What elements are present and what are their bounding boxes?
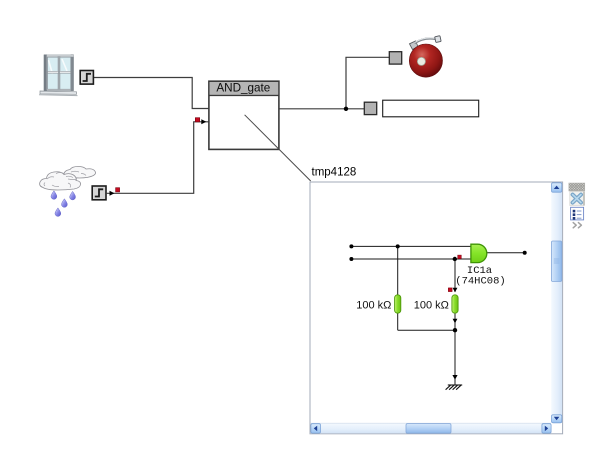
svg-text:100 kΩ: 100 kΩ [414, 299, 449, 311]
svg-text:(74HC08): (74HC08) [455, 276, 505, 288]
svg-text:100 kΩ: 100 kΩ [356, 299, 391, 311]
svg-text:tmp4128: tmp4128 [312, 167, 357, 179]
svg-text:AND_gate: AND_gate [216, 81, 270, 94]
